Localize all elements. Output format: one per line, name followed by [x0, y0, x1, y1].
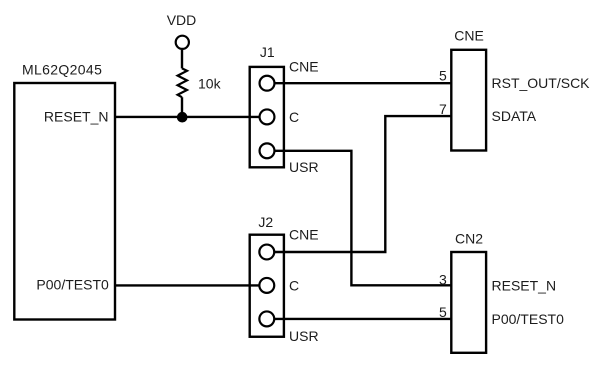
svg-text:CN2: CN2: [455, 231, 483, 247]
svg-text:5: 5: [439, 304, 447, 320]
svg-text:CNE: CNE: [454, 28, 484, 44]
svg-text:USR: USR: [289, 159, 319, 175]
svg-text:CNE: CNE: [289, 227, 319, 243]
svg-text:USR: USR: [289, 328, 319, 344]
svg-text:VDD: VDD: [167, 12, 197, 28]
svg-text:P00/TEST0: P00/TEST0: [36, 277, 109, 293]
svg-text:J2: J2: [258, 214, 273, 230]
svg-text:3: 3: [439, 271, 447, 287]
svg-text:ML62Q2045: ML62Q2045: [22, 62, 102, 78]
svg-text:RST_OUT/SCK: RST_OUT/SCK: [492, 75, 591, 91]
svg-text:C: C: [289, 109, 299, 125]
svg-text:RESET_N: RESET_N: [44, 108, 109, 124]
svg-text:7: 7: [439, 101, 447, 117]
svg-text:C: C: [289, 278, 299, 294]
svg-text:CNE: CNE: [289, 59, 319, 75]
svg-text:J1: J1: [260, 44, 275, 60]
svg-text:10k: 10k: [198, 76, 222, 92]
svg-text:5: 5: [439, 67, 447, 83]
svg-text:P00/TEST0: P00/TEST0: [492, 311, 565, 327]
svg-text:SDATA: SDATA: [492, 108, 537, 124]
svg-text:RESET_N: RESET_N: [492, 277, 557, 293]
